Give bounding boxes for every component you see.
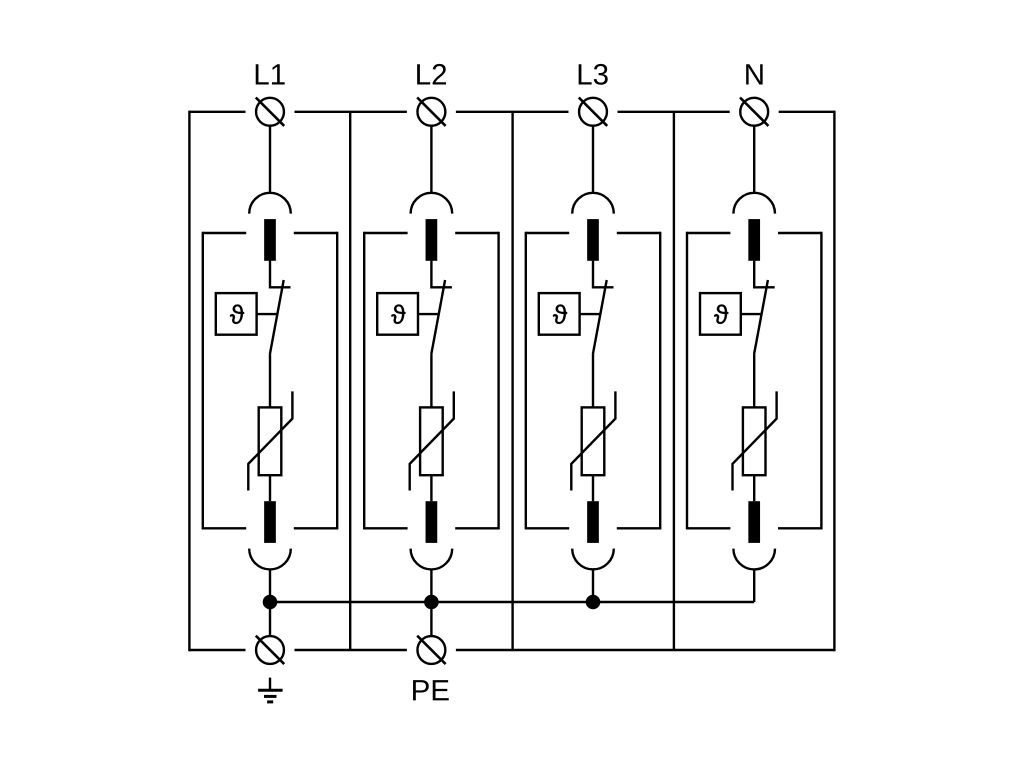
wire: L3 terminal to plug contact: [592, 126, 594, 194]
plug-in contact blade (male) bottom, channel L1: [264, 501, 276, 543]
varistor RV4 body: [743, 407, 766, 475]
thermal disconnect switch blade F2: [431, 280, 445, 354]
wire: varistor to bottom blade, channel N: [753, 475, 755, 501]
varistor RV1 body: [259, 407, 282, 475]
ground symbol: [258, 678, 283, 702]
plug-in contact (female) bottom, channel L3: [572, 549, 614, 570]
wire: switch to varistor, channel L3: [592, 354, 594, 407]
plug-in contact blade (male) top, channel N: [748, 219, 760, 261]
node PE label: [413, 680, 449, 700]
theta symbol, channel L1: [230, 305, 244, 324]
plug-in contact (female) top, channel L1: [249, 193, 291, 214]
wire: varistor to bottom blade, channel L3: [592, 475, 594, 501]
thermal disconnect switch blade F1: [270, 280, 284, 354]
terminal X1 (L1) screw clamp: [256, 98, 284, 126]
plug-in contact (female) top, channel L2: [411, 193, 453, 214]
plug-in contact (female) top, channel N: [733, 193, 775, 214]
wire: switch to varistor, channel N: [753, 354, 755, 407]
varistor RV3 body: [582, 407, 605, 475]
node L2 label: [417, 64, 446, 85]
wire: cell divider 2: [511, 112, 513, 650]
varistor RV1 strike-through: [248, 391, 292, 490]
junction dot, L2 branch to PE bus: [424, 595, 439, 610]
wire: sensor box to switch blade, channel L1: [257, 313, 278, 315]
terminal X3 (L3) screw clamp: [579, 98, 607, 126]
wire: blade to disconnect switch, channel L3: [593, 261, 614, 288]
wire: varistor to bottom blade, channel L1: [269, 475, 271, 501]
theta symbol, channel L3: [553, 305, 567, 324]
module box outline, channel L2: [364, 232, 498, 530]
wire: bus to earth terminal: [269, 602, 271, 636]
module box outline, channel L1: [203, 232, 337, 530]
node N label: [746, 64, 762, 84]
thermal sensor box, channel L2: [377, 293, 418, 335]
wire: PE collecting bus: [270, 601, 754, 603]
wire: contact to PE bus, channel N: [753, 569, 755, 602]
plug-in contact (female) bottom, channel L1: [249, 549, 291, 570]
plug-in contact (female) bottom, channel N: [733, 549, 775, 570]
plug-in contact blade (male) bottom, channel L2: [426, 501, 438, 543]
wire: cell divider 1: [349, 112, 351, 650]
plug-in contact blade (male) bottom, channel L3: [587, 501, 599, 543]
plug-in contact blade (male) bottom, channel N: [748, 501, 760, 543]
module box outline, channel L3: [526, 232, 660, 530]
theta symbol, channel L2: [391, 305, 405, 324]
wire: cell divider 3: [673, 112, 675, 650]
wire: N terminal to plug contact: [753, 126, 755, 194]
wire: L2 terminal to plug contact: [430, 126, 432, 194]
plug-in contact (female) bottom, channel L2: [411, 549, 453, 570]
wire: switch to varistor, channel L2: [430, 354, 432, 407]
wire: L1 terminal to plug contact: [269, 126, 271, 194]
plug-in contact blade (male) top, channel L3: [587, 219, 599, 261]
thermal disconnect switch blade F4: [754, 280, 768, 354]
junction dot, L3 branch to PE bus: [586, 595, 601, 610]
wire: bottom frame edge: [189, 649, 834, 651]
plug-in contact (female) top, channel L3: [572, 193, 614, 214]
wire: blade to disconnect switch, channel L1: [270, 261, 291, 288]
theta symbol, channel N: [714, 305, 728, 324]
wire: contact to PE bus, channel L2: [430, 569, 432, 602]
thermal sensor box, channel L3: [539, 293, 580, 335]
node L1 label: [256, 64, 285, 84]
wire: blade to disconnect switch, channel L2: [431, 261, 452, 288]
terminal X6 (PE) screw clamp: [417, 636, 445, 664]
varistor RV4 strike-through: [733, 391, 777, 490]
wire: left frame edge: [188, 111, 190, 652]
terminal X4 (N) screw clamp: [740, 98, 768, 126]
varistor RV2 strike-through: [410, 391, 454, 490]
thermal sensor box, channel L1: [216, 293, 257, 335]
thermal disconnect switch blade F3: [593, 280, 607, 354]
junction dot, L1 branch to PE bus: [263, 595, 278, 610]
thermal sensor box, channel N: [700, 293, 741, 335]
wire: bus to PE terminal: [430, 602, 432, 636]
module box outline, channel N: [687, 232, 821, 530]
wire: contact to PE bus, channel L3: [592, 569, 594, 602]
terminal X2 (L2) screw clamp: [417, 98, 445, 126]
plug-in contact blade (male) top, channel L1: [264, 219, 276, 261]
wire: top feed line (frame top edge): [189, 111, 834, 113]
wire: switch to varistor, channel L1: [269, 354, 271, 407]
wire: blade to disconnect switch, channel N: [754, 261, 775, 288]
node L3 label: [579, 64, 608, 85]
wire: sensor box to switch blade, channel N: [741, 313, 762, 315]
wire: contact to PE bus, channel L1: [269, 569, 271, 602]
terminal X5 (earth) screw clamp: [256, 636, 284, 664]
wire: right frame edge: [833, 111, 835, 652]
varistor RV3 strike-through: [571, 391, 615, 490]
plug-in contact blade (male) top, channel L2: [426, 219, 438, 261]
varistor RV2 body: [420, 407, 443, 475]
wire: sensor box to switch blade, channel L3: [580, 313, 601, 315]
wire: sensor box to switch blade, channel L2: [418, 313, 439, 315]
wire: varistor to bottom blade, channel L2: [430, 475, 432, 501]
